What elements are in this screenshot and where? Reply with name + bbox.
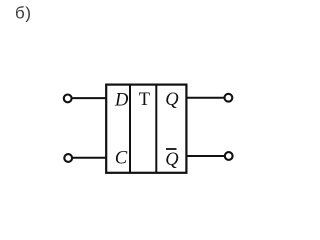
- flip-flop U1 body: [106, 85, 186, 173]
- svg-text:T: T: [139, 90, 150, 110]
- output terminal Q-bar: [225, 152, 233, 160]
- svg-text:Q: Q: [165, 150, 179, 170]
- input terminal C: [64, 154, 72, 162]
- overbar of Q-bar: [166, 148, 177, 150]
- svg-text:D: D: [114, 91, 129, 111]
- divider right: [155, 85, 157, 173]
- svg-text:Q: Q: [165, 90, 179, 110]
- input terminal D: [64, 95, 72, 103]
- wire D input: [72, 97, 106, 99]
- output terminal Q: [225, 94, 233, 102]
- svg-text:б): б): [15, 3, 32, 22]
- wire Q-bar output: [187, 155, 225, 157]
- divider left: [129, 85, 131, 173]
- wire C input: [72, 157, 106, 159]
- svg-text:C: C: [115, 149, 128, 169]
- wire Q output: [187, 97, 224, 99]
